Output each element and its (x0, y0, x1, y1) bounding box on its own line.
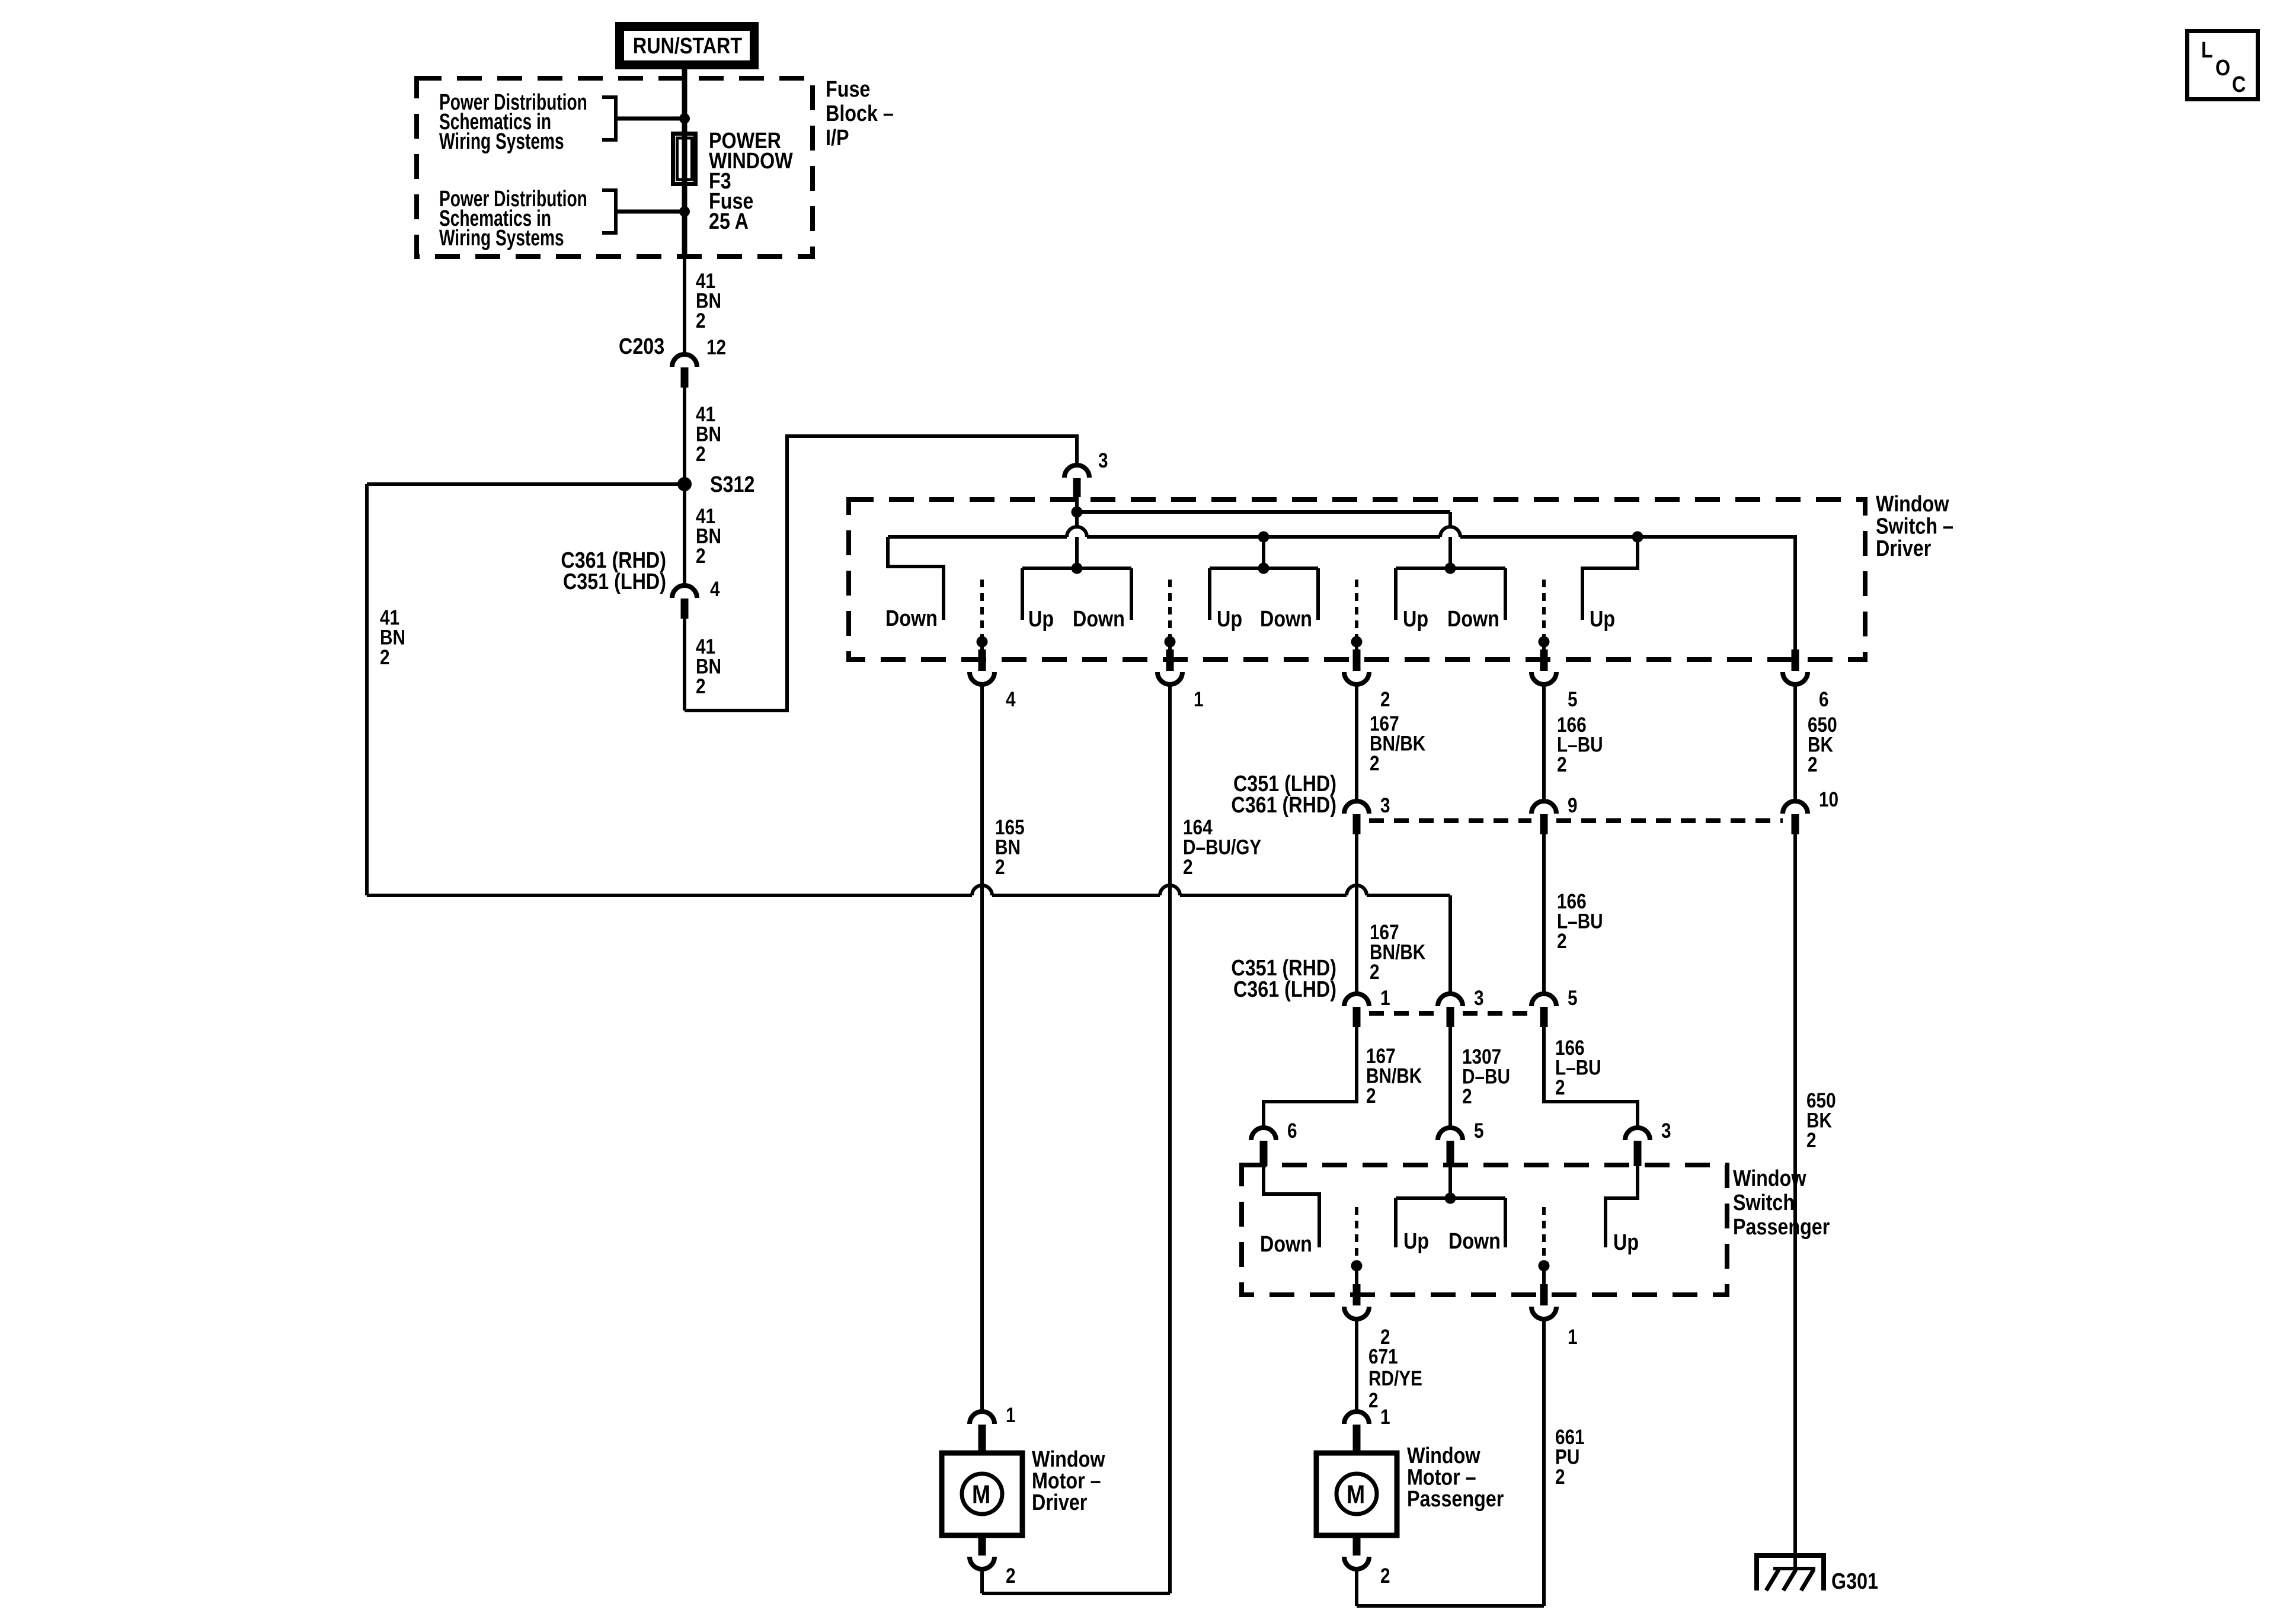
svg-text:C203: C203 (619, 334, 664, 359)
svg-text:2: 2 (696, 443, 706, 466)
svg-text:Driver: Driver (1876, 536, 1932, 561)
svg-text:2: 2 (1006, 1564, 1016, 1588)
svg-text:L: L (2201, 38, 2213, 63)
svg-text:2: 2 (696, 675, 706, 698)
svg-text:3: 3 (1380, 794, 1390, 817)
svg-text:9: 9 (1568, 794, 1578, 817)
svg-text:RUN/START: RUN/START (633, 34, 743, 59)
svg-text:2: 2 (1183, 856, 1193, 879)
svg-text:2: 2 (1370, 752, 1380, 775)
svg-text:C361 (LHD): C361 (LHD) (1233, 977, 1336, 1002)
svg-text:2: 2 (1555, 1076, 1565, 1099)
svg-text:Window: Window (1733, 1166, 1806, 1191)
svg-text:Up: Up (1217, 607, 1242, 632)
svg-text:12: 12 (706, 336, 726, 359)
svg-text:2: 2 (1366, 1084, 1376, 1108)
svg-text:1: 1 (1380, 1406, 1390, 1429)
svg-text:Driver: Driver (1032, 1490, 1088, 1515)
svg-text:2: 2 (1368, 1389, 1379, 1412)
svg-text:Down: Down (1073, 607, 1125, 632)
svg-text:3: 3 (1661, 1119, 1671, 1142)
svg-text:Up: Up (1403, 607, 1428, 632)
svg-text:3: 3 (1474, 987, 1484, 1010)
svg-text:10: 10 (1819, 788, 1838, 811)
svg-text:6: 6 (1287, 1119, 1297, 1142)
svg-text:Up: Up (1028, 607, 1054, 632)
svg-text:2: 2 (1555, 1465, 1565, 1489)
svg-text:Up: Up (1613, 1230, 1639, 1255)
svg-text:25 A: 25 A (709, 209, 749, 234)
svg-text:Down: Down (1448, 1229, 1501, 1254)
svg-text:C361 (RHD): C361 (RHD) (1231, 793, 1336, 818)
svg-text:2: 2 (1806, 1129, 1817, 1152)
svg-text:C: C (2232, 72, 2246, 97)
svg-text:2: 2 (696, 309, 706, 332)
svg-text:4: 4 (710, 578, 720, 601)
svg-text:5: 5 (1568, 987, 1578, 1010)
svg-text:5: 5 (1474, 1119, 1484, 1142)
svg-text:1: 1 (1006, 1404, 1016, 1427)
svg-text:Passenger: Passenger (1733, 1215, 1830, 1240)
svg-text:1: 1 (1194, 688, 1204, 711)
svg-text:2: 2 (1380, 688, 1390, 711)
svg-text:2: 2 (1808, 753, 1818, 776)
svg-text:2: 2 (696, 545, 706, 568)
svg-text:2: 2 (1462, 1085, 1472, 1108)
svg-text:C351 (LHD): C351 (LHD) (563, 569, 666, 594)
svg-text:Switch –: Switch – (1876, 514, 1953, 539)
svg-text:2: 2 (1557, 930, 1567, 953)
svg-text:Block –: Block – (826, 101, 894, 126)
svg-text:RD/YE: RD/YE (1368, 1367, 1422, 1390)
svg-text:Down: Down (1447, 607, 1499, 632)
svg-text:G301: G301 (1831, 1569, 1878, 1594)
svg-text:2: 2 (995, 856, 1005, 879)
svg-text:671: 671 (1368, 1345, 1398, 1368)
svg-text:S312: S312 (710, 472, 754, 497)
svg-text:2: 2 (1380, 1564, 1390, 1588)
svg-text:Fuse: Fuse (826, 77, 870, 102)
svg-text:M: M (972, 1480, 990, 1509)
svg-text:3: 3 (1098, 449, 1108, 472)
svg-text:Wiring Systems: Wiring Systems (439, 129, 564, 154)
svg-text:Down: Down (1260, 1232, 1312, 1257)
svg-text:Switch: Switch (1733, 1190, 1795, 1215)
svg-text:Passenger: Passenger (1407, 1487, 1504, 1512)
svg-text:D–BU/GY: D–BU/GY (1183, 836, 1262, 859)
svg-text:4: 4 (1006, 688, 1016, 711)
svg-text:5: 5 (1568, 688, 1578, 711)
svg-text:2: 2 (380, 646, 390, 669)
svg-text:Up: Up (1403, 1229, 1429, 1254)
svg-text:I/P: I/P (826, 126, 849, 151)
svg-text:2: 2 (1557, 753, 1567, 776)
svg-text:M: M (1347, 1480, 1365, 1509)
svg-text:O: O (2215, 56, 2230, 81)
svg-text:Wiring Systems: Wiring Systems (439, 226, 564, 251)
svg-text:2: 2 (1370, 961, 1380, 984)
svg-text:6: 6 (1819, 688, 1829, 711)
svg-text:1: 1 (1380, 987, 1390, 1010)
svg-text:Down: Down (885, 606, 938, 631)
svg-text:Window: Window (1876, 492, 1949, 517)
svg-text:Down: Down (1260, 607, 1312, 632)
svg-text:1: 1 (1568, 1326, 1578, 1349)
svg-text:Up: Up (1590, 607, 1615, 632)
